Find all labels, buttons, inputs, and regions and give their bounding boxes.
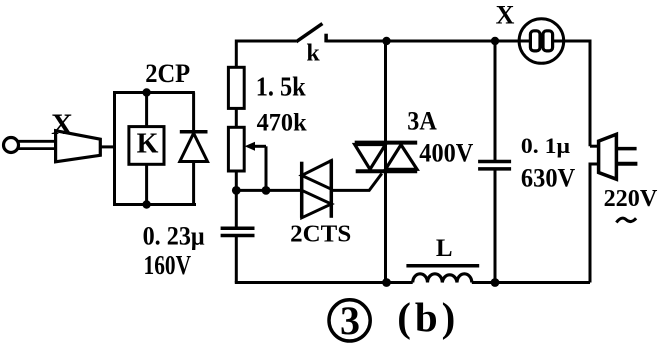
switch k right contact [324, 34, 328, 43]
svg-text:220V: 220V [604, 186, 658, 212]
node bottom cap [491, 278, 500, 287]
wire K top lead [145, 93, 148, 127]
triac V1 main vertical [384, 41, 387, 283]
probe ring terminal [4, 138, 19, 153]
wire bottom rail left [235, 281, 413, 284]
relay coil K box [129, 127, 164, 165]
wire diode anode lead [192, 162, 195, 205]
caption circled 3 [329, 300, 370, 341]
wire plug top stub [590, 145, 600, 148]
svg-text:3A: 3A [407, 106, 437, 135]
node wiper junction [262, 186, 271, 195]
svg-text:470k: 470k [257, 110, 307, 137]
triac top bar [355, 141, 418, 145]
inductor L core line [406, 264, 479, 268]
potentiometer RP 470k [228, 127, 244, 171]
node top rail triac [382, 37, 390, 45]
wire pot bottom [235, 171, 238, 190]
node block top [142, 88, 150, 96]
plug body [599, 134, 617, 179]
diac upper triangle [302, 161, 332, 190]
wire C2 bottom lead [494, 169, 497, 283]
node bottom triac [382, 278, 391, 287]
wire C1 to bottom rail [235, 236, 238, 283]
wire R1 to pot [235, 108, 238, 127]
svg-text:(b): (b) [397, 294, 455, 340]
triac left triangle [355, 145, 386, 170]
svg-text:K: K [137, 129, 159, 160]
svg-text:2CTS: 2CTS [290, 222, 351, 248]
svg-text:160V: 160V [144, 250, 192, 280]
wire lamp to right corner [564, 41, 590, 146]
wire plug bottom stub [590, 164, 600, 283]
plug bottom prong [616, 162, 637, 166]
wire diac to gate [331, 174, 382, 191]
triac bottom bar [356, 169, 418, 173]
diode D1 cathode bar [180, 130, 208, 134]
svg-text:630V: 630V [521, 163, 576, 192]
wire bottom rail right [472, 281, 590, 284]
label ~ (AC) [616, 218, 636, 222]
wire top-left corner to switch [236, 41, 296, 67]
capacitor C1 0.23u plates [221, 227, 255, 231]
lamp internal leads [519, 40, 563, 43]
lamp left electrode [530, 31, 540, 51]
svg-text:0. 1μ: 0. 1μ [521, 133, 571, 158]
svg-text:400V: 400V [419, 139, 473, 168]
probe shaft [19, 141, 56, 148]
diac 2CTS left bar [300, 162, 304, 218]
svg-text:3: 3 [340, 298, 360, 343]
wire junction to C1 [235, 190, 238, 227]
resistor R1 1.5k [228, 67, 244, 108]
node block bottom [142, 200, 150, 208]
wire wiper down [265, 146, 268, 190]
lamp (neon) circle [519, 19, 564, 64]
svg-text:k: k [306, 41, 320, 67]
switch k blade [296, 24, 322, 42]
svg-text:1. 5k: 1. 5k [256, 72, 306, 102]
lamp right electrode [543, 31, 553, 51]
diac lower triangle [302, 190, 332, 218]
capacitor C2 0.1u plates [478, 160, 511, 164]
wire block left side [113, 91, 116, 205]
svg-text:L: L [436, 235, 453, 262]
wire K bottom lead [145, 164, 148, 204]
wire C2 top lead [494, 41, 497, 161]
wire probe to block [100, 145, 114, 148]
potentiometer wiper arrow [250, 145, 266, 148]
svg-text:2CP: 2CP [145, 59, 190, 88]
triac right triangle [386, 145, 418, 170]
node top rail cap [491, 37, 499, 45]
node pot bottom junction [232, 186, 241, 195]
wire block bottom rail [113, 203, 196, 206]
inductor L humps [413, 274, 472, 283]
diode D1 triangle [180, 133, 208, 161]
diode D1 (2CP) cathode lead [192, 93, 195, 133]
diac 2CTS right bar [330, 160, 334, 218]
wire junction to diac [236, 189, 301, 192]
wire top rail [326, 40, 519, 43]
plug top prong [616, 147, 636, 151]
svg-text:X: X [496, 1, 515, 30]
wire block top rail [115, 91, 195, 94]
svg-text:0. 23μ: 0. 23μ [143, 222, 205, 251]
probe horn body [56, 131, 101, 162]
